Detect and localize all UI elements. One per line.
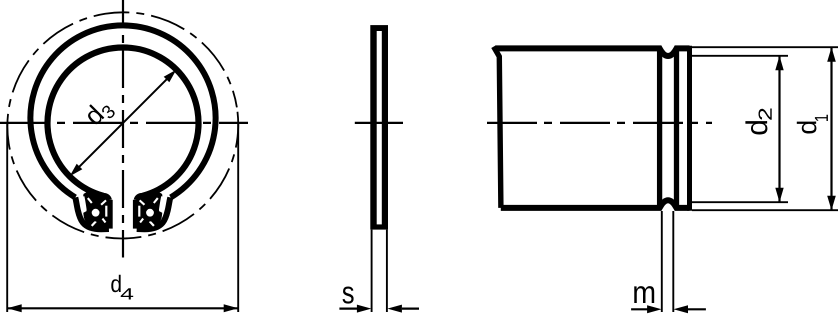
- lug gap wall: [106, 200, 113, 229]
- d3 arrowhead upper-right: [164, 70, 177, 83]
- slit ray N: [88, 198, 92, 203]
- slit ray SE: [102, 219, 105, 223]
- side view horizontal centerline: [355, 122, 403, 124]
- side view section outer rectangle: [370, 25, 388, 230]
- m dimension left tail with arrow: [631, 308, 648, 310]
- label d2 (rotated): [745, 108, 771, 134]
- label d3 (rotated 45deg): [82, 104, 116, 126]
- groove left wall line: [657, 50, 662, 207]
- slit ray NE: [101, 200, 106, 204]
- shaft bottom edge with groove dip: [501, 200, 690, 208]
- d4 arrowhead right: [224, 304, 239, 312]
- label s: [342, 286, 353, 303]
- s extension line right: [386, 230, 388, 312]
- d4 arrowhead left: [7, 304, 22, 312]
- s extension line left: [371, 230, 373, 312]
- d3 arrowhead lower-left: [70, 164, 83, 177]
- shaft centerline: [484, 122, 712, 124]
- label m: [634, 286, 654, 303]
- m dimension right tail with arrow: [688, 308, 706, 310]
- d1 dimension line: [830, 47, 832, 210]
- sliver ray E: [105, 206, 107, 217]
- hole rim: [86, 203, 104, 221]
- d2 arrowhead bottom: [775, 188, 783, 203]
- d1 arrowhead top: [827, 47, 836, 62]
- d4 extension line right: [237, 124, 239, 313]
- lug wall-top join: [103, 196, 109, 200]
- vertical centerline of ring view: [122, 0, 124, 258]
- shaft top edge with groove dip: [496, 48, 690, 56]
- free-state dashed ellipse (ring unsprung outline): [0, 0, 255, 255]
- d2 extension line bottom: [692, 201, 788, 203]
- right lug assembly (mirror of left): [136, 192, 170, 230]
- slit ray S: [92, 221, 96, 226]
- d1 arrowhead bottom: [827, 196, 836, 211]
- label d1 (rotated): [797, 115, 828, 134]
- d1 extension line bottom: [692, 209, 838, 211]
- m extension line right (groove wall): [672, 211, 674, 312]
- s dimension line right tail with arrow: [402, 308, 419, 310]
- left lug assembly: [75, 192, 109, 230]
- d3 diameter arrow line: [73, 73, 173, 173]
- label d4: [111, 275, 120, 292]
- d2 extension line top: [692, 55, 788, 57]
- shaft left break edge with spur kink: [494, 47, 501, 208]
- d4 extension line left: [6, 124, 8, 313]
- horizontal centerline of ring view: [0, 122, 248, 124]
- d2 arrowhead top: [775, 56, 783, 71]
- m extension line left (groove wall): [661, 211, 663, 312]
- d1 extension line top: [692, 46, 838, 48]
- d4 dimension line: [7, 307, 238, 309]
- d2 dimension line: [778, 56, 780, 202]
- hole: [92, 209, 100, 217]
- lug interior mass: [83, 192, 109, 230]
- s dimension line left tail with arrow: [339, 308, 357, 310]
- shaft end face: [687, 46, 692, 211]
- side view section slit: [377, 31, 382, 224]
- band tail white (W): [81, 196, 87, 213]
- groove right wall line: [674, 50, 679, 207]
- ring inner edge (bore circle d3): [47, 47, 198, 195]
- ring outer edge (eccentric arc): [30, 25, 215, 197]
- lug outer sweep: [75, 197, 109, 229]
